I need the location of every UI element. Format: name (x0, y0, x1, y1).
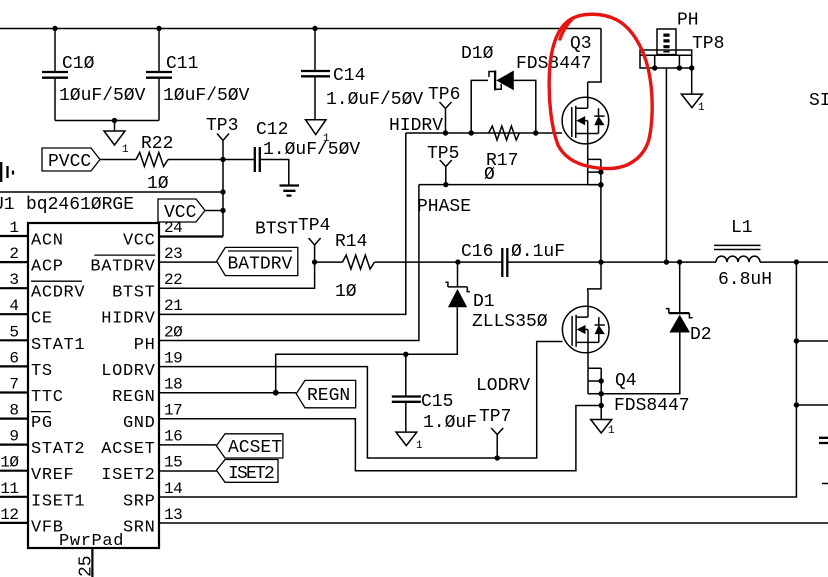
svg-text:17: 17 (164, 402, 182, 420)
node rail-C10 junction (52, 26, 57, 31)
left edge component fragment (1, 162, 13, 182)
node REGN junction (273, 390, 279, 396)
wire pin18 REGN to flag (159, 392, 296, 394)
node PH left junction (652, 65, 657, 70)
ground below C14 (306, 120, 331, 145)
wire output tap 2 (796, 404, 828, 406)
svg-text:1ØuF/5ØV: 1ØuF/5ØV (163, 86, 250, 106)
svg-text:VREF: VREF (31, 466, 74, 485)
svg-text:ISET1: ISET1 (31, 492, 85, 511)
wire PwrPad pin 25 stub (91, 548, 93, 577)
svg-text:STAT1: STAT1 (31, 336, 85, 355)
wire pin16 to ACSET flag (159, 444, 216, 446)
flag ISET2 (216, 460, 278, 485)
node TP5 junction (443, 182, 448, 187)
node D10 right junction (533, 130, 538, 135)
wire PH to switch node (665, 68, 667, 262)
wire HIDRV riser: pin21 (159, 133, 406, 314)
svg-text:Ø: Ø (484, 165, 495, 185)
wire GND net: pin17 (159, 406, 601, 471)
testpoint TP4 (298, 216, 330, 262)
diode D2 schottky (666, 262, 712, 345)
svg-text:18: 18 (164, 376, 182, 394)
resistor R14 (335, 232, 375, 302)
wire R14 to C16 (375, 261, 503, 263)
node BTST junction (312, 259, 317, 264)
flag PVCC (42, 148, 100, 172)
wire D10 branch (471, 80, 536, 133)
svg-text:TS: TS (31, 362, 53, 381)
svg-text:STAT2: STAT2 (31, 440, 85, 459)
svg-text:BTST: BTST (112, 284, 155, 303)
svg-text:1.ØuF/5ØV: 1.ØuF/5ØV (326, 90, 423, 110)
ground below C15 (396, 432, 423, 452)
svg-text:SRP: SRP (123, 492, 156, 511)
svg-text:LODRV: LODRV (101, 362, 155, 381)
svg-text:23: 23 (164, 245, 182, 263)
wire LODRV net: pin19 (159, 342, 563, 459)
node TP3-R22 junction (220, 157, 225, 162)
svg-text:ACN: ACN (31, 232, 64, 251)
svg-text:SRN: SRN (123, 518, 156, 537)
svg-text:ACP: ACP (31, 258, 64, 277)
svg-text:CE: CE (31, 310, 53, 329)
wire pin 11 stub (0, 496, 28, 498)
wire pin 4 stub (0, 313, 28, 315)
svg-text:C16: C16 (461, 242, 493, 262)
ground below Q4 (591, 420, 615, 438)
svg-text:9: 9 (9, 428, 18, 446)
wire C16 to switch node (507, 261, 716, 263)
svg-text:1.ØuF/5ØV: 1.ØuF/5ØV (263, 140, 360, 160)
flag ACSET (216, 434, 283, 458)
flag REGN (296, 380, 356, 407)
svg-text:16: 16 (164, 428, 182, 446)
svg-text:ISET2: ISET2 (101, 466, 155, 485)
wire PH right pin to ground (691, 68, 693, 94)
svg-text:Q4: Q4 (615, 371, 637, 391)
transistor Q3 FDS8447 (562, 82, 609, 188)
svg-text:Q3: Q3 (570, 34, 592, 54)
svg-text:PH: PH (134, 336, 156, 355)
wire fragment at right edge (822, 483, 828, 485)
svg-text:U1: U1 (0, 195, 15, 215)
svg-text:HIDRV: HIDRV (101, 310, 155, 329)
svg-text:21: 21 (164, 297, 182, 315)
node TP7 junction (495, 455, 500, 460)
capacitor C16 (461, 242, 565, 277)
wire Q3 source to switch node (600, 185, 602, 262)
svg-text:LODRV: LODRV (476, 376, 530, 396)
ground below TP8 (681, 94, 705, 114)
node PH bottom junction (664, 259, 669, 264)
svg-text:ISET2: ISET2 (228, 464, 274, 484)
wire Q4 source below (600, 394, 602, 420)
svg-text:D1Ø: D1Ø (461, 44, 494, 64)
svg-text:TP8: TP8 (692, 34, 724, 54)
svg-text:D2: D2 (690, 325, 712, 345)
svg-text:REGN: REGN (307, 386, 350, 406)
annotation red circle around Q3 (549, 14, 652, 168)
wire pin23 to BATDRV flag (159, 261, 217, 263)
wire C10-C11 bottom (55, 120, 159, 122)
wire BTST net: pin22 riser and R14 feed (159, 262, 343, 288)
wire Q3 drain jog from rail (588, 29, 601, 83)
svg-text:L1: L1 (731, 218, 753, 238)
node PH right junction (689, 65, 694, 70)
svg-text:PVCC: PVCC (48, 152, 91, 172)
svg-text:1Ø: 1Ø (335, 282, 357, 302)
svg-text:8: 8 (9, 402, 18, 420)
svg-text:24: 24 (164, 219, 182, 237)
testpoint TP5 (427, 144, 459, 185)
wire R22 to C12 (168, 159, 255, 161)
svg-text:3: 3 (9, 271, 18, 289)
svg-text:C15: C15 (421, 392, 453, 412)
wire pin 8 stub (0, 418, 28, 420)
transistor Q4 FDS8447 (562, 291, 609, 397)
svg-text:25: 25 (77, 555, 97, 577)
svg-text:TP3: TP3 (206, 116, 238, 136)
wire pin 5 stub (0, 339, 28, 341)
testpoint TP7 (479, 407, 511, 458)
svg-text:5: 5 (9, 323, 18, 341)
svg-text:C14: C14 (333, 66, 365, 86)
svg-text:ZLLS35Ø: ZLLS35Ø (472, 312, 548, 332)
wire output tap 1 (796, 340, 828, 342)
svg-text:1Ø: 1Ø (147, 174, 169, 194)
svg-text:REGN: REGN (112, 388, 155, 407)
svg-text:PG: PG (31, 414, 53, 433)
wire VCC flag to TP3 column (205, 210, 223, 212)
svg-text:4: 4 (9, 297, 18, 315)
svg-text:1: 1 (9, 219, 18, 237)
node rail-C14 junction (312, 26, 317, 31)
capacitor C11 (146, 29, 250, 121)
wire top input rail (0, 28, 601, 30)
svg-text:6: 6 (9, 349, 18, 367)
flag BATDRV (217, 247, 298, 275)
capacitor C10 (42, 29, 146, 121)
svg-text:BTST: BTST (255, 220, 298, 240)
svg-text:1: 1 (416, 440, 423, 452)
resistor R22 (136, 134, 173, 194)
svg-text:12: 12 (0, 506, 18, 524)
wire pin 7 stub (0, 391, 28, 393)
svg-text:1: 1 (122, 144, 129, 156)
wire pin 3 stub (0, 287, 28, 289)
capacitor C15 (392, 354, 477, 433)
wire PH riser: pin20 (159, 185, 419, 341)
diode D10 schottky (461, 44, 514, 90)
flag VCC (158, 199, 205, 223)
svg-text:bq2461ØRGE: bq2461ØRGE (26, 195, 134, 215)
wire pin 6 stub (0, 365, 28, 367)
svg-text:ACSET: ACSET (101, 440, 155, 459)
node PH mid junction (677, 65, 682, 70)
svg-text:D1: D1 (473, 292, 495, 312)
svg-text:14: 14 (164, 480, 182, 498)
svg-text:ACDRV: ACDRV (31, 284, 85, 303)
svg-text:1: 1 (608, 425, 615, 437)
wire SRN net: pin13 (159, 522, 828, 524)
svg-text:TTC: TTC (31, 388, 64, 407)
svg-text:FDS8447: FDS8447 (614, 396, 690, 416)
svg-text:PH: PH (677, 11, 699, 31)
node rail-C11 junction (156, 26, 161, 31)
svg-text:C1Ø: C1Ø (62, 54, 95, 74)
node switch node Q3/Q4 (598, 259, 603, 264)
svg-text:19: 19 (164, 349, 182, 367)
node output tap 2 (794, 402, 799, 407)
capacitor C12 (255, 120, 361, 186)
wire L1 to right edge (760, 261, 828, 263)
wire REGN branch to C15 and D1 (276, 307, 458, 393)
node VCC junction (220, 208, 225, 213)
svg-text:C11: C11 (166, 54, 198, 74)
wire Q4 drain jog (588, 262, 601, 291)
svg-text:TP5: TP5 (427, 144, 459, 164)
wire pin15 to ISET2 flag (159, 470, 216, 472)
node output junction (794, 259, 799, 264)
svg-text:SI4: SI4 (809, 91, 828, 111)
svg-text:C12: C12 (256, 120, 288, 140)
wire pin 1 stub (0, 235, 28, 237)
wire pin 9 stub (0, 444, 28, 446)
svg-text:TP4: TP4 (298, 216, 330, 236)
svg-text:Ø.1uF: Ø.1uF (511, 242, 565, 262)
wire PHASE horizontal (419, 184, 601, 186)
node wire-192 junction (220, 189, 225, 194)
svg-text:1ØuF/5ØV: 1ØuF/5ØV (59, 86, 146, 106)
wire HIDRV horizontal (406, 132, 562, 134)
svg-text:GND: GND (123, 414, 156, 433)
diode D1 ZLLS350 schottky (445, 262, 547, 332)
op-amp U1 bq24610RGE IC body (28, 223, 159, 548)
svg-text:6.8uH: 6.8uH (718, 270, 772, 290)
capacitor C14 (301, 29, 423, 120)
wire pin 2 stub (0, 261, 28, 263)
ground below C10/C11 (104, 121, 129, 157)
wire PVCC to R22 (100, 159, 136, 161)
earth ground for C12 (280, 186, 300, 196)
node D2 top junction (677, 259, 682, 264)
svg-text:22: 22 (164, 271, 182, 289)
wire pin 12 stub (0, 522, 28, 524)
node C15 junction (403, 352, 408, 357)
svg-text:13: 13 (164, 506, 182, 524)
svg-text:1.ØuF: 1.ØuF (423, 413, 477, 433)
svg-text:7: 7 (9, 376, 18, 394)
wire Q4 source to D2 anode (601, 333, 680, 394)
node output tap 1 (794, 338, 799, 343)
svg-text:11: 11 (0, 480, 18, 498)
node D10 left junction (469, 130, 474, 135)
node Q4 source GND junction (599, 403, 604, 408)
svg-text:ACSET: ACSET (228, 438, 282, 458)
testpoint TP6 (428, 85, 460, 133)
svg-text:2Ø: 2Ø (164, 323, 183, 341)
svg-text:15: 15 (164, 454, 182, 472)
svg-text:TP6: TP6 (428, 85, 460, 105)
wire SRP net: pin14 (159, 264, 796, 498)
svg-text:BATDRV: BATDRV (90, 258, 155, 277)
connector PH header (640, 11, 724, 69)
svg-text:FDS8447: FDS8447 (516, 54, 592, 74)
node cap bottom junction (112, 118, 117, 123)
svg-text:VCC: VCC (123, 232, 156, 251)
inductor L1 (714, 218, 772, 290)
svg-text:1: 1 (698, 102, 705, 114)
wire pin24 corner (159, 235, 223, 237)
svg-text:R14: R14 (335, 232, 367, 252)
resistor R17 (484, 126, 519, 185)
svg-text:R22: R22 (141, 134, 173, 154)
node D1 top junction (455, 259, 460, 264)
svg-text:PHASE: PHASE (417, 197, 471, 217)
wire pin 10 stub (0, 470, 28, 472)
svg-text:TP7: TP7 (479, 407, 511, 427)
svg-text:2: 2 (9, 245, 18, 263)
capacitor fragment at right edge (819, 438, 828, 443)
svg-text:1Ø: 1Ø (0, 454, 19, 472)
node PHASE-Q3 source junction (598, 182, 603, 187)
svg-text:BATDRV: BATDRV (228, 255, 293, 275)
testpoint TP3 (206, 116, 238, 237)
wire left net into TP3 column (0, 191, 223, 193)
node TP6 junction (443, 130, 448, 135)
